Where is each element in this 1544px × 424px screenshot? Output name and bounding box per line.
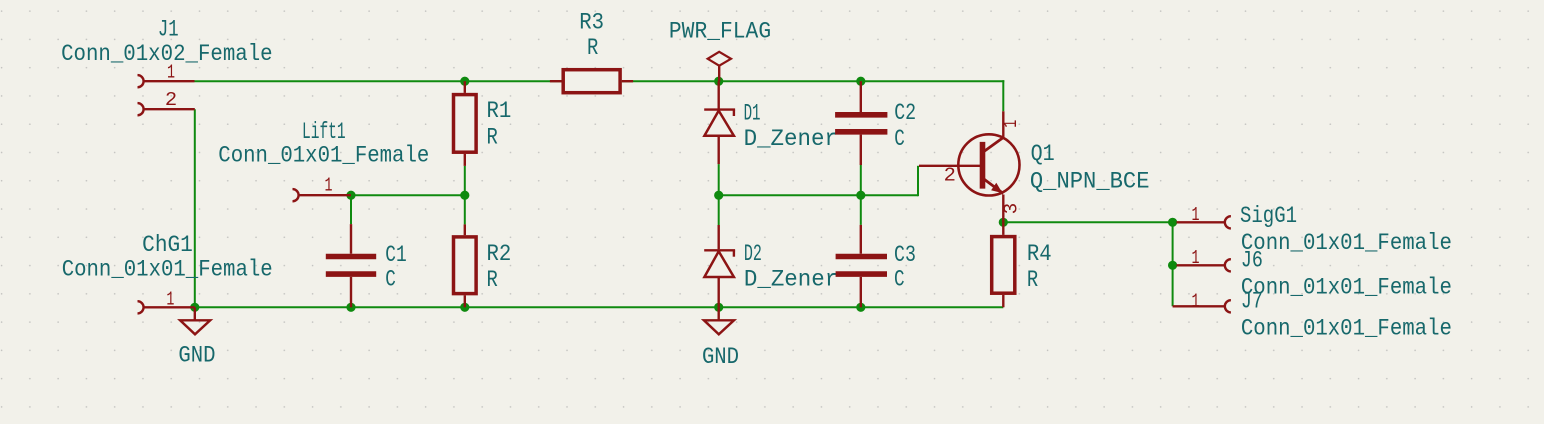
wire R1 bottom — [464, 166, 466, 195]
svg-text:Conn_01x01_Female: Conn_01x01_Female — [1241, 275, 1452, 301]
junction R1 top — [460, 77, 469, 86]
svg-text:C3: C3 — [894, 242, 916, 268]
svg-text:3: 3 — [1000, 203, 1022, 214]
svg-text:2: 2 — [944, 164, 956, 186]
svg-text:J6: J6 — [1241, 248, 1263, 274]
svg-text:D2: D2 — [744, 241, 762, 267]
resistor R4 — [992, 222, 1015, 307]
svg-text:GND: GND — [702, 344, 739, 370]
svg-text:R: R — [487, 125, 499, 151]
power flag PWR_FLAG — [708, 52, 731, 81]
wire middle bus right — [719, 194, 918, 196]
connector J7 — [1173, 300, 1231, 312]
wire C1 top — [350, 195, 352, 224]
svg-text:C2: C2 — [894, 100, 916, 126]
resistor R2 — [454, 224, 477, 307]
svg-text:1: 1 — [166, 288, 174, 310]
transistor Q1 — [919, 111, 1020, 222]
junction C2 top — [856, 77, 865, 86]
svg-text:R: R — [587, 35, 599, 61]
connector ChG1 — [138, 301, 195, 313]
wire R2 top — [464, 195, 466, 224]
junction D2 GND — [714, 303, 723, 312]
junction C1 bottom — [346, 303, 355, 312]
wire Q1 base riser — [917, 166, 919, 196]
svg-text:R3: R3 — [579, 10, 604, 36]
junction PWR_FLAG D1 — [714, 77, 723, 86]
diode D2 — [704, 225, 735, 307]
wire bottom bus — [195, 306, 1004, 308]
svg-text:1: 1 — [1192, 204, 1200, 226]
wire D2 top — [718, 195, 720, 225]
svg-text:Conn_01x01_Female: Conn_01x01_Female — [218, 143, 429, 169]
capacitor C1 — [326, 224, 376, 307]
svg-text:R2: R2 — [487, 241, 512, 267]
junction C3 bottom — [856, 303, 865, 312]
ground GND left — [180, 307, 210, 334]
wire top bus left of R3 — [195, 80, 562, 82]
svg-text:Q1: Q1 — [1031, 141, 1055, 167]
svg-text:Q_NPN_BCE: Q_NPN_BCE — [1030, 169, 1150, 195]
resistor R3 — [550, 70, 633, 93]
connector J1 — [138, 75, 195, 115]
ground GND right — [704, 307, 734, 334]
capacitor C2 — [835, 81, 887, 165]
svg-text:R: R — [1027, 267, 1039, 293]
svg-text:C1: C1 — [385, 242, 406, 268]
wire C3 top — [860, 195, 862, 225]
svg-text:J1: J1 — [158, 17, 179, 43]
svg-text:R1: R1 — [487, 98, 512, 124]
junction ChG1 GND — [190, 303, 199, 312]
svg-text:Lift1: Lift1 — [302, 119, 346, 145]
svg-text:PWR_FLAG: PWR_FLAG — [669, 19, 771, 45]
junction Lift1 — [346, 191, 355, 200]
connector Lift1 — [293, 189, 352, 201]
junction Q1 emitter R4 — [999, 218, 1008, 227]
svg-text:D1: D1 — [744, 100, 761, 126]
svg-text:D_Zener: D_Zener — [744, 126, 838, 152]
junction R2 bottom — [460, 303, 469, 312]
wire D1 bottom — [718, 164, 720, 195]
svg-text:J7: J7 — [1241, 289, 1263, 315]
connector J6 — [1177, 259, 1231, 271]
svg-text:Conn_01x02_Female: Conn_01x02_Female — [61, 41, 273, 67]
svg-text:GND: GND — [178, 343, 215, 369]
svg-text:ChG1: ChG1 — [142, 232, 193, 258]
svg-text:Conn_01x01_Female: Conn_01x01_Female — [1241, 230, 1452, 256]
wire middle bus left — [351, 194, 465, 196]
svg-text:R4: R4 — [1027, 241, 1052, 267]
svg-text:C: C — [385, 267, 396, 293]
svg-text:Conn_01x01_Female: Conn_01x01_Female — [1241, 315, 1452, 341]
wire top bus right of R3 — [622, 80, 1005, 82]
wire emitter bus — [1003, 221, 1172, 223]
junction SigG1 — [1168, 218, 1177, 227]
junction C2 C3 — [856, 191, 865, 200]
svg-text:R: R — [487, 267, 499, 293]
wire C2 bottom — [860, 165, 862, 195]
junction R1 R2 — [460, 191, 469, 200]
svg-text:2: 2 — [165, 89, 177, 111]
svg-text:D_Zener: D_Zener — [744, 267, 838, 293]
connector SigG1 — [1177, 216, 1231, 228]
wire right connector drop — [1172, 222, 1174, 306]
capacitor C3 — [836, 225, 887, 307]
junction J6 — [1168, 261, 1177, 270]
svg-text:1: 1 — [1000, 120, 1022, 128]
svg-text:1: 1 — [325, 174, 333, 196]
junction D1 D2 — [714, 191, 723, 200]
resistor R1 — [454, 81, 477, 166]
svg-text:C: C — [894, 267, 905, 293]
diode D1 — [704, 81, 735, 164]
svg-text:Conn_01x01_Female: Conn_01x01_Female — [62, 257, 273, 283]
svg-text:SigG1: SigG1 — [1240, 203, 1297, 229]
svg-text:1: 1 — [1192, 247, 1200, 269]
wire Q1 collector drop — [1002, 80, 1004, 111]
svg-text:1: 1 — [1192, 290, 1200, 312]
wire J1 pin2 vertical — [194, 109, 196, 307]
svg-text:C: C — [894, 126, 905, 152]
